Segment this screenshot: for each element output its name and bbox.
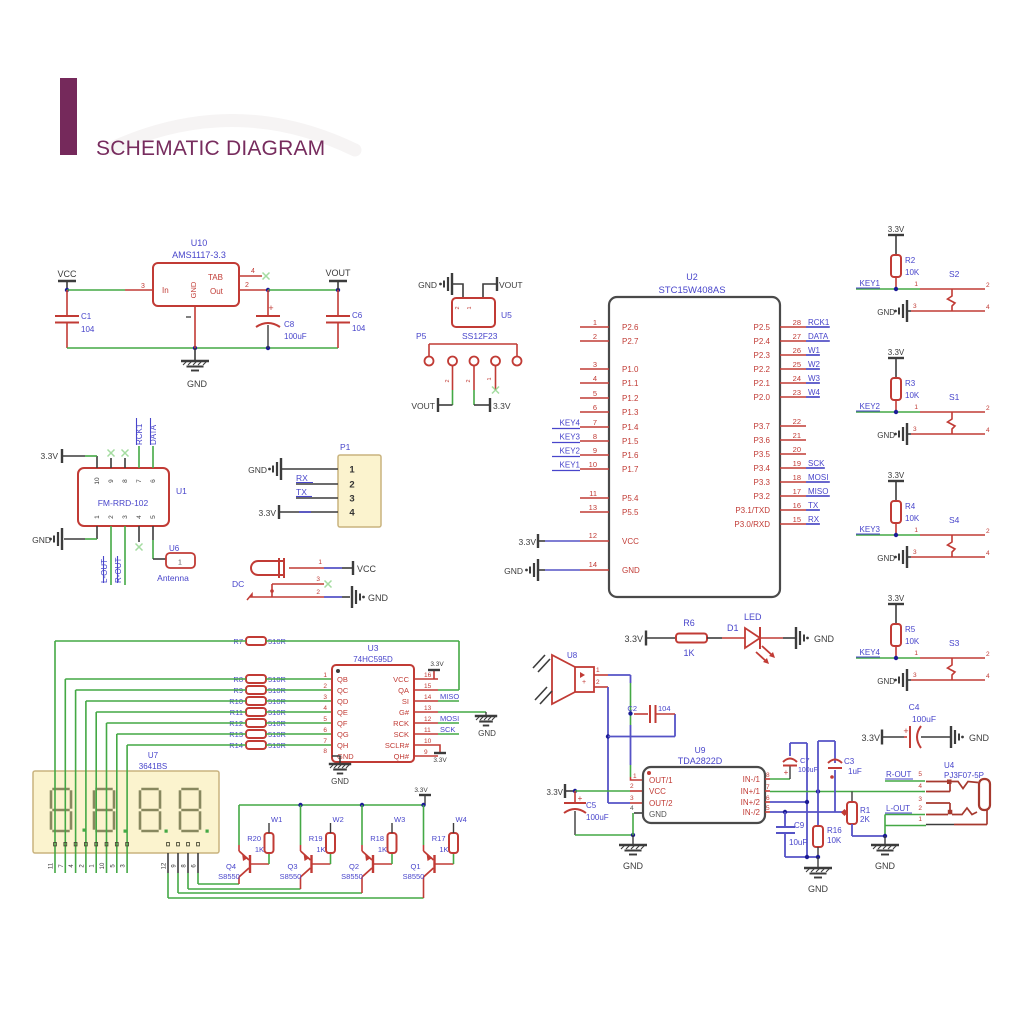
svg-text:2: 2: [245, 282, 249, 289]
svg-text:4: 4: [251, 268, 255, 275]
svg-text:P1.1: P1.1: [622, 379, 639, 388]
svg-text:P2.2: P2.2: [754, 365, 771, 374]
svg-text:100uF: 100uF: [912, 714, 936, 724]
svg-text:MISO: MISO: [440, 692, 459, 701]
svg-text:+: +: [582, 679, 586, 686]
svg-text:Out: Out: [210, 287, 224, 296]
svg-text:11: 11: [424, 727, 431, 734]
svg-text:MOSI: MOSI: [808, 473, 828, 482]
svg-text:4: 4: [630, 805, 634, 812]
svg-text:MISO: MISO: [808, 487, 828, 496]
svg-text:2: 2: [918, 805, 922, 812]
svg-text:U8: U8: [567, 651, 578, 660]
svg-text:P3.7: P3.7: [754, 422, 771, 431]
svg-text:3.3V: 3.3V: [433, 757, 447, 764]
svg-text:IN+/1: IN+/1: [741, 787, 761, 796]
svg-text:GND: GND: [877, 677, 895, 686]
svg-text:IN-/2: IN-/2: [743, 808, 761, 817]
svg-text:VCC: VCC: [57, 269, 77, 279]
svg-text:104: 104: [658, 704, 671, 713]
svg-text:OUT/1: OUT/1: [649, 776, 673, 785]
svg-text:GND: GND: [623, 861, 644, 871]
svg-text:3.3V: 3.3V: [888, 471, 905, 480]
svg-text:R18: R18: [370, 834, 384, 843]
svg-text:1K: 1K: [255, 845, 264, 854]
svg-text:W2: W2: [808, 360, 821, 369]
svg-text:GND: GND: [368, 593, 389, 603]
svg-text:2: 2: [108, 515, 115, 519]
svg-text:P2.5: P2.5: [754, 323, 771, 332]
svg-text:10K: 10K: [905, 514, 920, 523]
svg-text:1: 1: [593, 318, 597, 327]
svg-text:25: 25: [793, 360, 801, 369]
svg-text:W2: W2: [333, 815, 344, 824]
svg-text:S8550: S8550: [341, 872, 363, 881]
svg-text:5: 5: [918, 771, 922, 778]
svg-text:16: 16: [793, 501, 801, 510]
svg-text:3: 3: [913, 672, 917, 679]
svg-text:SCK: SCK: [808, 459, 825, 468]
svg-text:RCK: RCK: [393, 719, 409, 728]
svg-text:P1.7: P1.7: [622, 465, 639, 474]
svg-text:3: 3: [913, 426, 917, 433]
svg-text:GND: GND: [504, 566, 523, 576]
svg-text:+: +: [578, 794, 583, 803]
svg-text:KEY4: KEY4: [560, 419, 581, 428]
svg-text:8: 8: [593, 432, 597, 441]
svg-text:P1.2: P1.2: [622, 394, 639, 403]
svg-text:3.3V: 3.3V: [41, 451, 59, 461]
svg-text:PJ3F07-5P: PJ3F07-5P: [944, 771, 984, 780]
svg-text:1: 1: [349, 465, 355, 476]
svg-text:P1.6: P1.6: [622, 451, 639, 460]
svg-text:C3: C3: [844, 757, 855, 766]
svg-text:1K: 1K: [439, 845, 448, 854]
svg-text:2: 2: [445, 379, 451, 382]
svg-text:GND: GND: [622, 566, 640, 575]
svg-text:3: 3: [913, 549, 917, 556]
svg-text:5: 5: [766, 805, 770, 812]
svg-text:P2.0: P2.0: [754, 393, 771, 402]
svg-text:KEY1: KEY1: [560, 461, 581, 470]
svg-text:SCLR#: SCLR#: [385, 741, 410, 750]
svg-text:6: 6: [593, 403, 597, 412]
svg-text:2: 2: [596, 679, 600, 686]
svg-text:P1.5: P1.5: [622, 437, 639, 446]
svg-text:C7: C7: [800, 756, 810, 765]
svg-text:P3.4: P3.4: [754, 464, 771, 473]
svg-text:KEY1: KEY1: [860, 279, 881, 288]
svg-text:3.3V: 3.3V: [259, 508, 277, 518]
svg-text:S8550: S8550: [280, 872, 302, 881]
svg-text:4: 4: [986, 427, 990, 434]
svg-text:8: 8: [122, 479, 129, 483]
svg-text:C5: C5: [586, 801, 597, 810]
svg-text:SS12F23: SS12F23: [462, 331, 498, 341]
svg-text:W4: W4: [808, 388, 821, 397]
svg-text:RX: RX: [296, 473, 308, 483]
svg-text:6: 6: [150, 479, 157, 483]
svg-text:P1.4: P1.4: [622, 423, 639, 432]
svg-text:17: 17: [793, 487, 801, 496]
svg-text:21: 21: [793, 431, 801, 440]
svg-text:In: In: [162, 286, 169, 295]
svg-text:RX: RX: [808, 515, 820, 524]
svg-text:QG: QG: [337, 730, 349, 739]
svg-text:24: 24: [793, 374, 801, 383]
svg-text:10uF: 10uF: [789, 838, 807, 847]
svg-text:VCC: VCC: [622, 537, 639, 546]
svg-text:KEY2: KEY2: [560, 447, 581, 456]
svg-text:QA: QA: [398, 686, 409, 695]
svg-text:R2: R2: [905, 256, 916, 265]
svg-text:SCHEMATIC DIAGRAM: SCHEMATIC DIAGRAM: [96, 137, 325, 160]
svg-text:14: 14: [424, 694, 432, 701]
svg-text:3: 3: [593, 360, 597, 369]
svg-text:R-OUT: R-OUT: [886, 770, 911, 779]
svg-text:3: 3: [122, 515, 129, 519]
svg-text:10: 10: [589, 460, 597, 469]
svg-text:7: 7: [766, 784, 770, 791]
svg-text:C1: C1: [81, 312, 92, 321]
svg-text:3: 3: [316, 576, 320, 583]
svg-text:P3.3: P3.3: [754, 478, 771, 487]
svg-text:R1: R1: [860, 806, 871, 815]
svg-text:2: 2: [323, 683, 327, 690]
svg-text:R3: R3: [905, 379, 916, 388]
svg-text:74HC595D: 74HC595D: [353, 655, 393, 664]
svg-text:2K: 2K: [860, 815, 870, 824]
svg-text:IN+/2: IN+/2: [741, 798, 761, 807]
svg-text:2: 2: [630, 783, 634, 790]
svg-text:1K: 1K: [316, 845, 325, 854]
svg-text:W4: W4: [456, 815, 467, 824]
svg-text:1: 1: [487, 377, 493, 380]
svg-text:DC: DC: [232, 579, 244, 589]
svg-text:P2.4: P2.4: [754, 337, 771, 346]
svg-text:KEY2: KEY2: [860, 402, 881, 411]
svg-text:28: 28: [793, 318, 801, 327]
svg-text:GND: GND: [877, 554, 895, 563]
svg-text:27: 27: [793, 332, 801, 341]
svg-text:2: 2: [986, 282, 990, 289]
svg-text:3.3V: 3.3V: [493, 401, 511, 411]
svg-text:U10: U10: [191, 238, 208, 248]
svg-text:2: 2: [593, 332, 597, 341]
svg-text:2: 2: [455, 306, 461, 309]
svg-text:2: 2: [316, 589, 320, 596]
svg-text:P1: P1: [340, 442, 351, 452]
svg-text:KEY3: KEY3: [560, 433, 581, 442]
svg-text:4: 4: [918, 783, 922, 790]
svg-text:10: 10: [94, 477, 101, 485]
svg-text:SCK: SCK: [440, 725, 455, 734]
svg-text:S8550: S8550: [403, 872, 425, 881]
svg-text:VCC: VCC: [393, 675, 409, 684]
svg-text:W1: W1: [271, 815, 282, 824]
svg-text:S1: S1: [949, 392, 960, 402]
svg-text:QH#: QH#: [394, 752, 410, 761]
svg-text:TDA2822D: TDA2822D: [678, 756, 723, 766]
svg-text:1: 1: [318, 559, 322, 566]
svg-text:P3.0/RXD: P3.0/RXD: [734, 520, 770, 529]
svg-text:W1: W1: [808, 346, 821, 355]
svg-text:TAB: TAB: [208, 273, 223, 282]
svg-text:14: 14: [589, 560, 597, 569]
svg-text:1: 1: [178, 560, 182, 567]
svg-text:3: 3: [323, 694, 327, 701]
svg-text:GND: GND: [877, 431, 895, 440]
svg-text:3.3V: 3.3V: [414, 787, 428, 794]
svg-text:5: 5: [150, 515, 157, 519]
svg-text:+: +: [903, 726, 908, 736]
svg-text:U6: U6: [169, 544, 180, 553]
svg-text:U5: U5: [501, 310, 512, 320]
svg-text:L-OUT: L-OUT: [100, 559, 109, 583]
svg-text:1: 1: [596, 667, 600, 674]
svg-text:3: 3: [913, 303, 917, 310]
svg-text:GND: GND: [814, 634, 835, 644]
svg-text:6: 6: [323, 727, 327, 734]
svg-text:13: 13: [589, 503, 597, 512]
svg-text:10K: 10K: [827, 836, 842, 845]
svg-text:LED: LED: [744, 612, 762, 622]
svg-text:D1: D1: [727, 623, 739, 633]
svg-text:2: 2: [986, 405, 990, 412]
svg-text:MOSI: MOSI: [440, 714, 459, 723]
svg-text:C6: C6: [352, 311, 363, 320]
svg-text:3.3V: 3.3V: [888, 348, 905, 357]
svg-text:GND: GND: [248, 465, 267, 475]
svg-text:3.3V: 3.3V: [430, 661, 444, 668]
svg-text:+: +: [268, 303, 273, 313]
svg-text:3.3V: 3.3V: [624, 634, 643, 644]
svg-text:VOUT: VOUT: [499, 280, 523, 290]
svg-text:3641BS: 3641BS: [139, 762, 167, 771]
svg-text:9: 9: [593, 446, 597, 455]
svg-text:QH: QH: [337, 741, 348, 750]
svg-text:1: 1: [467, 306, 473, 309]
svg-text:C8: C8: [284, 320, 295, 329]
svg-text:3: 3: [349, 494, 354, 505]
svg-text:P2.7: P2.7: [622, 337, 639, 346]
svg-text:QF: QF: [337, 719, 348, 728]
svg-text:8: 8: [323, 748, 327, 755]
svg-text:R20: R20: [247, 834, 261, 843]
svg-text:KEY4: KEY4: [860, 648, 881, 657]
svg-text:100uF: 100uF: [284, 332, 307, 341]
svg-text:S4: S4: [949, 515, 960, 525]
svg-text:11: 11: [589, 489, 597, 498]
svg-text:STC15W408AS: STC15W408AS: [658, 285, 725, 296]
svg-text:100uF: 100uF: [586, 813, 609, 822]
svg-text:VOUT: VOUT: [411, 401, 435, 411]
svg-text:GND: GND: [877, 308, 895, 317]
svg-text:U2: U2: [686, 272, 698, 282]
svg-text:Q4: Q4: [226, 862, 236, 871]
svg-text:1: 1: [914, 527, 918, 534]
svg-text:R17: R17: [432, 834, 446, 843]
svg-text:QC: QC: [337, 686, 349, 695]
svg-text:R5: R5: [905, 625, 916, 634]
svg-text:FM-RRD-102: FM-RRD-102: [98, 498, 149, 508]
svg-text:2: 2: [986, 528, 990, 535]
svg-text:5: 5: [593, 389, 597, 398]
svg-text:P2.3: P2.3: [754, 351, 771, 360]
svg-text:S2: S2: [949, 269, 960, 279]
svg-text:Antenna: Antenna: [157, 573, 189, 583]
svg-text:P3.5: P3.5: [754, 450, 771, 459]
svg-text:1: 1: [633, 773, 637, 780]
svg-text:GND: GND: [649, 810, 667, 819]
svg-text:1: 1: [918, 816, 922, 823]
svg-text:3.3V: 3.3V: [861, 733, 880, 743]
svg-text:P3.6: P3.6: [754, 436, 771, 445]
svg-text:P2.6: P2.6: [622, 323, 639, 332]
svg-text:104: 104: [352, 324, 366, 333]
svg-text:10: 10: [100, 862, 106, 869]
svg-text:15: 15: [424, 683, 432, 690]
svg-text:P2.1: P2.1: [754, 379, 771, 388]
svg-text:7: 7: [136, 479, 143, 483]
svg-text:U9: U9: [695, 745, 706, 755]
svg-text:4: 4: [986, 550, 990, 557]
svg-text:S8550: S8550: [218, 872, 240, 881]
svg-text:GND: GND: [187, 379, 208, 389]
svg-text:4: 4: [593, 374, 597, 383]
svg-text:4: 4: [136, 515, 143, 519]
svg-text:VCC: VCC: [357, 564, 377, 574]
svg-text:RCK1: RCK1: [808, 318, 830, 327]
svg-text:GND: GND: [418, 280, 437, 290]
svg-text:3.3V: 3.3V: [888, 594, 905, 603]
svg-text:AMS1117-3.3: AMS1117-3.3: [172, 250, 226, 260]
svg-text:TX: TX: [808, 501, 819, 510]
svg-text:4: 4: [323, 705, 327, 712]
svg-text:Q2: Q2: [349, 862, 359, 871]
svg-text:GND: GND: [875, 861, 896, 871]
svg-text:U1: U1: [176, 486, 187, 496]
svg-text:VOUT: VOUT: [325, 268, 351, 278]
svg-text:Q1: Q1: [410, 862, 420, 871]
svg-text:G#: G#: [399, 708, 410, 717]
svg-text:7: 7: [323, 738, 327, 745]
svg-text:1K: 1K: [378, 845, 387, 854]
svg-text:3: 3: [141, 283, 145, 290]
svg-text:2: 2: [986, 651, 990, 658]
svg-text:6: 6: [766, 795, 770, 802]
svg-text:U3: U3: [368, 643, 379, 653]
svg-text:12: 12: [162, 862, 168, 869]
svg-text:KEY3: KEY3: [860, 525, 881, 534]
svg-text:TX: TX: [296, 487, 307, 497]
svg-text:DATA: DATA: [808, 332, 829, 341]
svg-text:8: 8: [766, 772, 770, 779]
svg-text:U4: U4: [944, 761, 955, 770]
svg-text:9: 9: [424, 749, 428, 756]
svg-text:2: 2: [349, 480, 354, 491]
svg-text:P1.3: P1.3: [622, 408, 639, 417]
svg-text:GND: GND: [189, 281, 198, 298]
svg-text:OUT/2: OUT/2: [649, 799, 673, 808]
svg-text:9: 9: [108, 479, 115, 483]
svg-text:100uF: 100uF: [798, 767, 818, 774]
svg-text:R-OUT: R-OUT: [114, 558, 123, 583]
svg-text:11: 11: [49, 862, 55, 869]
svg-text:P5.4: P5.4: [622, 494, 639, 503]
svg-text:R19: R19: [309, 834, 323, 843]
svg-text:1: 1: [323, 672, 327, 679]
svg-text:4: 4: [986, 673, 990, 680]
svg-text:R4: R4: [905, 502, 916, 511]
svg-text:U7: U7: [148, 751, 159, 760]
svg-text:P3.2: P3.2: [754, 492, 771, 501]
svg-text:26: 26: [793, 346, 801, 355]
svg-text:W3: W3: [808, 374, 821, 383]
svg-text:S3: S3: [949, 638, 960, 648]
svg-text:GND: GND: [808, 884, 829, 894]
svg-text:3: 3: [918, 796, 922, 803]
svg-text:C9: C9: [794, 821, 805, 830]
svg-text:R6: R6: [683, 618, 695, 628]
svg-text:10K: 10K: [905, 637, 920, 646]
svg-text:3.3V: 3.3V: [888, 225, 905, 234]
svg-text:C4: C4: [909, 702, 920, 712]
svg-text:L-OUT: L-OUT: [886, 804, 910, 813]
svg-text:10K: 10K: [905, 268, 920, 277]
svg-text:GND: GND: [331, 777, 349, 786]
svg-text:Q3: Q3: [287, 862, 297, 871]
svg-text:1K: 1K: [683, 648, 694, 658]
svg-text:18: 18: [793, 473, 801, 482]
svg-text:C2: C2: [627, 704, 637, 713]
svg-text:10K: 10K: [905, 391, 920, 400]
svg-text:12: 12: [589, 531, 597, 540]
svg-text:20: 20: [793, 445, 801, 454]
svg-text:1: 1: [94, 515, 101, 519]
svg-text:QB: QB: [337, 675, 348, 684]
svg-text:QD: QD: [337, 697, 349, 706]
svg-text:5: 5: [323, 716, 327, 723]
svg-text:3: 3: [630, 795, 634, 802]
svg-text:2: 2: [466, 379, 472, 382]
svg-text:12: 12: [424, 716, 432, 723]
svg-text:IN-/1: IN-/1: [743, 775, 761, 784]
svg-text:22: 22: [793, 417, 801, 426]
svg-text:3.3V: 3.3V: [519, 537, 537, 547]
svg-text:13: 13: [424, 705, 432, 712]
svg-text:16: 16: [424, 672, 432, 679]
svg-text:P3.1/TXD: P3.1/TXD: [735, 506, 770, 515]
svg-text:GND: GND: [478, 729, 496, 738]
svg-text:GND: GND: [32, 535, 51, 545]
svg-text:4: 4: [986, 304, 990, 311]
svg-text:P5: P5: [416, 331, 427, 341]
svg-text:10: 10: [424, 738, 432, 745]
svg-text:W3: W3: [394, 815, 405, 824]
svg-text:104: 104: [81, 325, 95, 334]
svg-text:P1.0: P1.0: [622, 365, 639, 374]
svg-text:1: 1: [914, 404, 918, 411]
svg-text:SI: SI: [402, 697, 409, 706]
svg-text:1uF: 1uF: [848, 767, 862, 776]
svg-text:QE: QE: [337, 708, 348, 717]
svg-text:4: 4: [349, 508, 355, 519]
svg-text:P5.5: P5.5: [622, 508, 639, 517]
svg-text:19: 19: [793, 459, 801, 468]
svg-text:+: +: [784, 768, 789, 777]
svg-text:VCC: VCC: [649, 787, 666, 796]
